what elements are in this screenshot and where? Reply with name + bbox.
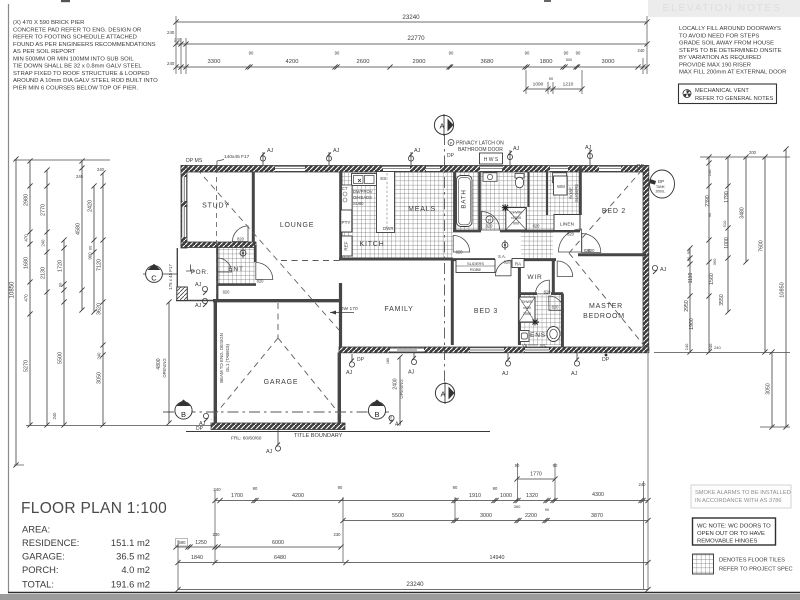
svg-text:240: 240 <box>714 345 721 350</box>
svg-text:2600: 2600 <box>357 59 370 65</box>
door arc bed2 <box>582 234 601 253</box>
roof dash line master hip <box>569 253 646 348</box>
roof dash line lounge/family boundary <box>281 260 340 262</box>
svg-text:240: 240 <box>76 174 84 179</box>
wall family west <box>339 283 342 347</box>
note block top-right: fill around doorways <box>679 26 786 76</box>
svg-text:PTY: PTY <box>342 220 351 225</box>
svg-text:90: 90 <box>708 213 712 217</box>
dimension line left col 4 <box>58 237 67 427</box>
svg-text:90: 90 <box>545 507 550 512</box>
svg-text:230: 230 <box>213 532 221 537</box>
svg-text:1700: 1700 <box>231 493 243 499</box>
svg-text:180: 180 <box>386 358 390 364</box>
svg-text:4200: 4200 <box>292 493 304 499</box>
svg-text:ROBE: ROBE <box>470 267 482 272</box>
svg-text:820: 820 <box>223 290 231 295</box>
legend bottom-right: floor tiles <box>693 554 793 574</box>
AJ marker garage door <box>266 430 281 455</box>
wall wir east <box>552 260 555 293</box>
svg-text:FRL: 60/60/60: FRL: 60/60/60 <box>231 436 262 442</box>
wall porch left <box>176 248 178 301</box>
svg-text:90: 90 <box>493 486 498 491</box>
svg-text:DW 170: DW 170 <box>340 306 358 312</box>
dimension line top room dims <box>173 48 649 70</box>
svg-text:SLIDERS: SLIDERS <box>574 184 579 202</box>
svg-text:240: 240 <box>708 343 713 350</box>
svg-text:AJ: AJ <box>408 370 415 376</box>
wall bed3 west / family east <box>451 260 454 345</box>
door arc master <box>557 261 573 277</box>
svg-text:WC NOTE: WC DOORS TO: WC NOTE: WC DOORS TO <box>697 524 771 530</box>
svg-text:240: 240 <box>684 343 689 350</box>
svg-text:151.1 m2: 151.1 m2 <box>111 537 150 548</box>
svg-text:SS: SS <box>380 176 386 181</box>
linen cupboard <box>554 215 580 231</box>
svg-text:900: 900 <box>88 252 93 260</box>
exterior wall: left (study) <box>181 166 187 249</box>
tiled floor: bath / laundry / wc <box>455 173 579 231</box>
svg-text:LOCALLY FILL AROUND DOORWAYS: LOCALLY FILL AROUND DOORWAYS <box>679 26 781 32</box>
window in bottom wall <box>470 347 504 352</box>
svg-text:820: 820 <box>456 250 464 255</box>
AJ marker bottom 1 <box>502 353 511 377</box>
svg-text:AJ: AJ <box>585 145 592 151</box>
svg-text:7600: 7600 <box>759 240 765 252</box>
kitchen island bench <box>377 172 395 233</box>
svg-text:230: 230 <box>174 38 182 43</box>
AJ marker top 3 <box>408 148 420 165</box>
svg-text:230: 230 <box>334 532 342 537</box>
note block top-left: brick pier notes <box>13 20 158 91</box>
svg-text:6480: 6480 <box>274 555 286 561</box>
svg-text:WIR: WIR <box>527 274 542 281</box>
window in top wall <box>480 166 502 172</box>
svg-text:GARAGE: GARAGE <box>264 379 299 386</box>
svg-text:SLIDERS: SLIDERS <box>467 261 484 266</box>
left dim connectors <box>14 160 212 465</box>
AJ marker top 4 <box>507 146 519 165</box>
door arc bed3 <box>496 260 512 276</box>
svg-text:3680: 3680 <box>481 59 494 65</box>
AJ marker bottom family west <box>346 354 355 376</box>
title boundary line <box>186 431 490 433</box>
svg-text:2980: 2980 <box>24 194 30 206</box>
porch brick pier <box>177 287 188 301</box>
washing machine <box>553 173 568 195</box>
box around 590 label <box>176 539 188 547</box>
bath tub <box>457 176 473 227</box>
dimension line bottom dims B <box>340 513 650 523</box>
svg-text:6000: 6000 <box>272 540 284 546</box>
section marker C left <box>143 264 177 283</box>
svg-text:470: 470 <box>389 416 393 422</box>
wall entry west stub <box>216 245 218 300</box>
dimension line left col 7 <box>97 170 106 427</box>
dimension line right col G <box>766 349 775 429</box>
bath door P circle <box>486 216 493 223</box>
svg-text:3870: 3870 <box>591 513 603 519</box>
dimension line right col F <box>780 146 789 429</box>
svg-text:MASTER: MASTER <box>589 303 623 310</box>
bath basin <box>483 173 497 182</box>
svg-text:820: 820 <box>237 237 245 242</box>
svg-text:A: A <box>439 122 444 131</box>
wall wc/laundry divider <box>527 172 529 207</box>
privacy latch P circle <box>448 140 454 146</box>
svg-text:DP: DP <box>447 153 455 159</box>
dimension line garage side opening 4800 <box>156 299 172 425</box>
svg-text:1790: 1790 <box>724 191 730 203</box>
svg-text:240: 240 <box>167 30 175 35</box>
svg-text:3300: 3300 <box>208 59 221 65</box>
wall kitchen/meals south <box>339 258 453 261</box>
smoke alarm symbol hall <box>502 240 508 250</box>
svg-text:175 x 45 F17: 175 x 45 F17 <box>168 264 173 290</box>
svg-text:AROUND A 10mm DIA GALV STEEL R: AROUND A 10mm DIA GALV STEEL ROD BUILT I… <box>13 78 158 84</box>
fridge box <box>342 236 353 256</box>
smoke alarm symbol entry <box>240 248 246 258</box>
window in top wall <box>550 166 568 172</box>
svg-text:REF: REF <box>344 241 349 250</box>
rainwater tank DP 2000L <box>650 170 675 198</box>
small annotation labels <box>186 141 645 442</box>
svg-text:REFER TO GENERAL NOTES: REFER TO GENERAL NOTES <box>695 96 773 102</box>
svg-text:240: 240 <box>213 487 221 492</box>
wall bed2 west <box>579 166 582 215</box>
svg-text:GRADE SOIL AWAY FROM HOUSE: GRADE SOIL AWAY FROM HOUSE <box>679 41 774 47</box>
exterior wall: top <box>181 166 648 173</box>
dimension line family opening 2400 <box>386 354 404 425</box>
exterior wall: study bottom / porch top <box>181 242 256 248</box>
svg-text:36.5 m2: 36.5 m2 <box>116 551 150 562</box>
section line B-B <box>163 411 390 413</box>
svg-text:TO AVOID NEED FOR STEPS: TO AVOID NEED FOR STEPS <box>679 33 759 39</box>
svg-text:B: B <box>374 410 379 419</box>
svg-text:2390: 2390 <box>705 195 711 207</box>
window in top wall <box>275 166 305 172</box>
AJ marker bottom 2 <box>571 353 580 377</box>
svg-text:BATHROOM DOOR: BATHROOM DOOR <box>458 147 503 153</box>
svg-text:AJ: AJ <box>333 148 340 154</box>
svg-text:A: A <box>440 390 445 399</box>
svg-text:AS PER SOIL REPORT: AS PER SOIL REPORT <box>13 49 76 55</box>
svg-text:POR.: POR. <box>191 269 210 276</box>
AJ marker right wall <box>652 265 666 274</box>
wall laundry divider east <box>546 172 548 215</box>
svg-text:90: 90 <box>88 245 93 250</box>
AJ marker garage left <box>199 413 209 427</box>
section marker A bottom <box>435 382 454 404</box>
door arc ens <box>549 296 564 311</box>
kitchen sink <box>352 174 377 186</box>
svg-text:90: 90 <box>525 51 530 56</box>
svg-text:KITCH: KITCH <box>360 241 385 248</box>
dimension line right col E <box>759 154 768 354</box>
svg-text:3000: 3000 <box>480 513 492 519</box>
svg-text:DP: DP <box>602 357 610 363</box>
svg-text:23240: 23240 <box>406 581 424 588</box>
door arc hall/family <box>453 236 470 253</box>
svg-text:VB: VB <box>522 343 528 348</box>
svg-text:AJ: AJ <box>266 449 273 455</box>
svg-text:1000: 1000 <box>724 237 730 249</box>
svg-text:S.A.: S.A. <box>498 254 506 259</box>
dimension line top sub dims 1090/1210 <box>523 76 584 92</box>
svg-text:DP MS: DP MS <box>186 158 203 164</box>
note box bottom-right: WC note <box>693 518 776 545</box>
svg-text:191.6 m2: 191.6 m2 <box>111 579 150 590</box>
svg-text:ENT: ENT <box>228 266 244 273</box>
svg-text:240: 240 <box>97 352 102 360</box>
window in bottom wall <box>525 347 549 352</box>
section marker B left <box>175 400 192 420</box>
svg-text:BY VARIATION AS REQUIRED: BY VARIATION AS REQUIRED <box>679 55 761 61</box>
wall hall south west seg <box>453 258 495 261</box>
AJ marker porch 1 <box>195 282 208 295</box>
svg-text:90: 90 <box>449 51 454 56</box>
svg-text:BED 2: BED 2 <box>602 208 626 215</box>
svg-text:DP: DP <box>637 164 645 170</box>
svg-text:90: 90 <box>253 486 258 491</box>
pantry box <box>341 210 352 232</box>
note box bottom-right: smoke alarms <box>691 485 791 508</box>
svg-text:OPENING: OPENING <box>399 379 404 398</box>
svg-text:820: 820 <box>552 305 560 310</box>
svg-text:MAX FILL 200mm AT EXTERNAL DOO: MAX FILL 200mm AT EXTERNAL DOOR <box>679 70 786 76</box>
window in top wall <box>383 166 410 172</box>
svg-text:GL1 (TAB815): GL1 (TAB815) <box>225 343 230 372</box>
dimension line bottom dims D overall 23240 <box>175 581 650 592</box>
wall ens north stub <box>551 292 563 295</box>
section marker B right <box>368 400 385 420</box>
svg-text:23240: 23240 <box>402 14 420 21</box>
svg-text:820: 820 <box>544 290 552 295</box>
svg-text:SHWR: SHWR <box>521 300 533 304</box>
svg-text:AJ: AJ <box>571 371 578 377</box>
svg-text:2900: 2900 <box>413 59 426 65</box>
svg-text:90: 90 <box>549 76 554 81</box>
svg-text:360: 360 <box>514 504 521 509</box>
ens shower <box>519 297 535 322</box>
svg-text:SMOKE ALARMS TO BE INSTALLED: SMOKE ALARMS TO BE INSTALLED <box>695 490 791 496</box>
tap cross (bath) <box>502 204 509 211</box>
svg-text:BEAM TO ENG. DESIGN: BEAM TO ENG. DESIGN <box>219 333 224 383</box>
svg-text:90: 90 <box>687 250 691 254</box>
svg-text:1000: 1000 <box>500 493 512 499</box>
porch seat symbol <box>186 265 195 272</box>
svg-text:90: 90 <box>453 485 458 490</box>
svg-text:P: P <box>488 218 491 223</box>
svg-text:DM/PROV: DM/PROV <box>353 189 373 194</box>
DP dot bottom wall <box>605 354 608 357</box>
svg-text:PIER MIN 6 COURSES BELOW TOP O: PIER MIN 6 COURSES BELOW TOP OF PIER. <box>13 85 138 91</box>
garage hip dash line east <box>278 338 344 420</box>
svg-text:4580: 4580 <box>76 223 82 235</box>
AJ marker top 2 <box>326 148 339 165</box>
wall meals/bath <box>453 172 456 230</box>
svg-text:1900: 1900 <box>689 318 695 330</box>
svg-text:STEPS TO BE DETERMINED ONSITE: STEPS TO BE DETERMINED ONSITE <box>679 48 782 54</box>
svg-text:1840: 1840 <box>191 555 203 561</box>
svg-text:3050: 3050 <box>766 383 772 395</box>
svg-text:ENS: ENS <box>530 332 546 339</box>
window in top wall <box>599 166 621 172</box>
svg-text:FAMILY: FAMILY <box>384 306 413 313</box>
AJ marker right of B right <box>389 415 402 427</box>
svg-text:14940: 14940 <box>490 555 505 561</box>
wc toilet (bath area) <box>515 174 524 188</box>
door width labels 820 <box>223 224 596 310</box>
svg-text:OPENING: OPENING <box>162 358 167 377</box>
svg-text:90: 90 <box>335 51 340 56</box>
AJ marker top 5 <box>585 145 593 165</box>
svg-text:140x45 F17: 140x45 F17 <box>224 154 250 160</box>
svg-text:H W S: H W S <box>484 157 499 163</box>
svg-text:TOTAL:: TOTAL: <box>22 579 54 590</box>
svg-text:1720: 1720 <box>58 260 64 272</box>
roof dash line bed2 hip <box>569 170 642 253</box>
scan speck marks top edge <box>61 0 551 2</box>
svg-text:MIN 500MM OR MIN 100MM INTO SU: MIN 500MM OR MIN 100MM INTO SUB SOIL <box>13 56 134 62</box>
door arc linen <box>559 229 582 252</box>
dimension line right col C <box>719 154 731 314</box>
AJ marker bottom family <box>408 353 417 376</box>
svg-text:TITLE BOUNDARY: TITLE BOUNDARY <box>294 433 343 439</box>
svg-text:1680: 1680 <box>24 257 30 269</box>
svg-text:MEALS: MEALS <box>408 206 436 213</box>
wall ens/master <box>561 294 564 347</box>
svg-text:MECHANICAL VENT: MECHANICAL VENT <box>695 88 749 94</box>
wall entry south <box>218 283 256 286</box>
svg-text:4.0 m2: 4.0 m2 <box>121 564 150 575</box>
top dim small left labels <box>167 30 182 66</box>
svg-text:360: 360 <box>712 258 717 265</box>
svg-text:P: P <box>450 141 453 146</box>
svg-text:7120: 7120 <box>97 259 103 271</box>
dimension line left col 2 <box>24 158 33 427</box>
svg-text:AREA:: AREA: <box>22 524 50 535</box>
return air box <box>512 259 524 268</box>
dimension line right col B <box>705 154 717 354</box>
svg-text:240: 240 <box>707 169 712 176</box>
svg-text:10850: 10850 <box>780 282 786 298</box>
sliding door opening DW170 in bottom wall <box>390 347 424 352</box>
svg-text:DWR: DWR <box>383 226 394 231</box>
svg-text:BATH: BATH <box>461 189 468 208</box>
svg-text:200: 200 <box>749 150 757 155</box>
svg-text:3480: 3480 <box>740 207 746 219</box>
svg-text:90: 90 <box>576 51 581 56</box>
section marker A top <box>434 114 453 136</box>
svg-text:2950: 2950 <box>684 300 690 312</box>
svg-text:4200: 4200 <box>286 59 299 65</box>
svg-text:AJ: AJ <box>195 303 202 309</box>
svg-text:820: 820 <box>486 224 494 229</box>
svg-text:2400: 2400 <box>393 378 399 389</box>
shower (bath) <box>506 208 527 231</box>
svg-text:240: 240 <box>167 61 175 66</box>
svg-text:1320: 1320 <box>526 493 538 499</box>
svg-text:590: 590 <box>179 540 187 545</box>
roof dash line main diagonal <box>197 169 339 330</box>
exterior wall: right <box>643 166 649 353</box>
svg-text:3620: 3620 <box>97 303 103 315</box>
svg-text:2000L: 2000L <box>656 190 666 194</box>
leader 140x45 F17 <box>217 160 224 169</box>
svg-text:PROVIDE MAX 190 RISER: PROVIDE MAX 190 RISER <box>679 62 751 68</box>
top dim connector verticals <box>176 16 647 94</box>
svg-text:90: 90 <box>338 485 343 490</box>
mechanical vent note box <box>679 84 777 104</box>
window in left wall <box>182 177 187 201</box>
dimension line left col 3 <box>41 167 50 427</box>
wall garage right <box>338 353 341 424</box>
svg-text:1770: 1770 <box>530 472 542 478</box>
dimension line left col 6 <box>88 183 97 314</box>
exterior wall: garage bottom <box>211 423 345 430</box>
svg-text:FOUND AS PER ENGINEERS RECOMME: FOUND AS PER ENGINEERS RECOMMENDATIONS <box>13 42 156 48</box>
svg-text:90: 90 <box>249 51 254 56</box>
svg-text:C: C <box>151 274 157 283</box>
svg-text:2420: 2420 <box>88 200 94 212</box>
AJ marker top 1 <box>260 148 273 165</box>
svg-text:AJ: AJ <box>199 421 206 427</box>
svg-text:820: 820 <box>567 232 575 237</box>
svg-text:240: 240 <box>639 482 647 487</box>
svg-text:DENOTES FLOOR TILES: DENOTES FLOOR TILES <box>719 558 785 564</box>
svg-text:1800: 1800 <box>540 59 553 65</box>
section line A-A <box>444 134 446 385</box>
svg-text:500: 500 <box>566 58 572 62</box>
dimension line bottom dims E 590/1250/6000 <box>173 532 343 550</box>
svg-text:AJ: AJ <box>502 371 509 377</box>
svg-text:820: 820 <box>504 260 512 265</box>
svg-text:1210: 1210 <box>563 82 574 88</box>
wall kitchen west <box>339 172 342 259</box>
door arc entry/hall <box>256 263 273 280</box>
svg-text:1560: 1560 <box>709 273 715 285</box>
dimension line bottom dims A <box>212 482 650 512</box>
svg-text:240: 240 <box>638 48 646 53</box>
svg-text:2000: 2000 <box>523 312 531 316</box>
svg-text:GARAGE:: GARAGE: <box>22 551 65 562</box>
svg-text:STUDY: STUDY <box>202 203 230 210</box>
svg-text:90: 90 <box>687 257 691 261</box>
svg-text:REFER TO PROJECT SPEC: REFER TO PROJECT SPEC <box>719 567 793 573</box>
svg-text:BED 3: BED 3 <box>474 308 498 315</box>
ens toilet <box>547 327 560 342</box>
svg-text:10850: 10850 <box>10 281 16 298</box>
svg-text:O/HEADS: O/HEADS <box>353 195 372 200</box>
wall garage top / hall bottom <box>213 299 341 302</box>
svg-text:2200: 2200 <box>525 513 537 519</box>
porch bottom edge <box>176 300 215 302</box>
dimension line top overall 23240 <box>173 14 649 25</box>
dimension line right col D <box>740 154 749 264</box>
svg-text:RA: RA <box>515 262 521 267</box>
svg-text:1910: 1910 <box>469 493 481 499</box>
svg-text:3050: 3050 <box>97 372 103 384</box>
door arc bath <box>481 212 500 231</box>
dimension line right col A <box>684 245 695 354</box>
ens tap symbol <box>532 319 539 326</box>
svg-text:LOUNGE: LOUNGE <box>280 222 314 229</box>
window in top wall <box>426 166 440 172</box>
svg-text:5500: 5500 <box>58 352 64 364</box>
door arc study <box>233 226 249 242</box>
svg-text:x1200: x1200 <box>511 216 521 220</box>
